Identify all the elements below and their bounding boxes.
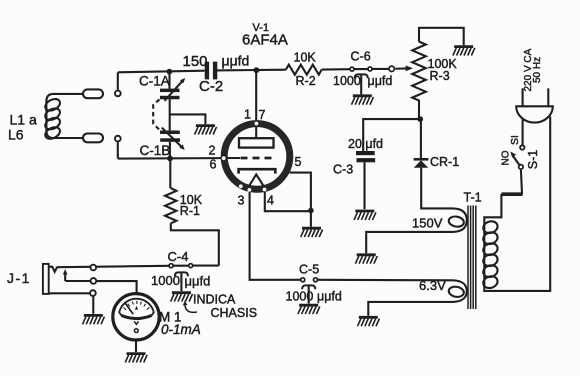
wire top bus left <box>118 71 205 73</box>
wire socket bottom riser <box>117 142 119 158</box>
terminal tip <box>90 265 96 271</box>
capacitor C4 feedthrough <box>169 264 219 292</box>
svg-text:1000: 1000 <box>333 74 361 88</box>
wire wiper arrow <box>395 67 406 69</box>
node junction tube plate <box>254 67 260 73</box>
svg-text:0-1mA: 0-1mA <box>161 322 201 337</box>
svg-text:R-1: R-1 <box>180 204 200 218</box>
svg-text:6AF4A: 6AF4A <box>242 32 288 49</box>
chassis pointer arrow <box>185 304 197 313</box>
wire pin4 <box>265 192 309 211</box>
capacitor C5 feedthrough <box>301 278 452 304</box>
svg-text:S-1: S-1 <box>526 150 540 170</box>
wire C-1B to grid bus <box>169 142 171 159</box>
svg-text:20 μfd: 20 μfd <box>348 137 383 151</box>
ground jack <box>83 315 105 324</box>
svg-text:R-2: R-2 <box>296 74 316 88</box>
terminal sleeve <box>90 290 96 296</box>
ground 150V <box>355 255 377 264</box>
transformer T1 150V winding <box>448 208 467 232</box>
svg-text:μμfd: μμfd <box>368 74 393 88</box>
svg-text:1: 1 <box>244 108 251 122</box>
wire C-1 gang dashed link <box>153 99 160 130</box>
svg-text:10K: 10K <box>294 51 317 65</box>
wire jack middle line <box>65 280 91 282</box>
wire top-left riser <box>117 72 119 89</box>
node junction B+ <box>417 116 423 122</box>
wire pin3 heater <box>250 192 301 280</box>
svg-text:7: 7 <box>259 108 266 122</box>
wire 150V return <box>366 232 452 253</box>
svg-text:3: 3 <box>238 194 245 208</box>
ground C5 <box>298 305 320 314</box>
capacitor C3 <box>356 151 375 209</box>
svg-text:150V: 150V <box>412 216 443 231</box>
node junction grid/R-1 <box>167 156 173 162</box>
ground cathode circuit <box>301 228 323 237</box>
svg-text:CHASIS: CHASIS <box>211 306 258 320</box>
svg-text:R-3: R-3 <box>430 69 450 83</box>
transformer T1 6.3V winding <box>448 280 467 302</box>
resistor R2 <box>286 65 322 75</box>
svg-text:C-1B: C-1B <box>140 143 171 158</box>
svg-text:1000: 1000 <box>151 273 180 288</box>
svg-text:C-6: C-6 <box>351 50 371 64</box>
capacitor C-1A <box>160 72 185 101</box>
svg-text:6.3V: 6.3V <box>419 278 446 293</box>
svg-text:CR-1: CR-1 <box>430 155 459 169</box>
svg-text:5: 5 <box>295 155 302 169</box>
svg-text:μμfd: μμfd <box>222 53 250 69</box>
svg-text:L1 a: L1 a <box>10 112 37 128</box>
wire rotor tap <box>170 99 206 130</box>
wire middle to meter <box>96 281 137 293</box>
svg-text:4: 4 <box>267 194 274 208</box>
svg-text:C-4: C-4 <box>168 249 189 264</box>
wire 6.3V return <box>368 302 452 316</box>
ground meter <box>125 354 147 363</box>
svg-text:C-3: C-3 <box>333 163 353 177</box>
terminal middle <box>91 278 97 284</box>
wire R2 to C6 <box>322 68 350 71</box>
socket terminal top <box>115 91 121 97</box>
wire C2 to tube top <box>216 69 286 72</box>
ground R3 top <box>453 47 475 56</box>
svg-text:50 Hz: 50 Hz <box>532 57 543 83</box>
svg-text:L6: L6 <box>8 127 24 143</box>
ground C4 <box>171 293 193 302</box>
ground C6 <box>352 96 374 105</box>
ground rotor <box>195 126 217 135</box>
plug 220V <box>516 88 553 144</box>
switch S1 <box>501 145 524 193</box>
transformer T1 core <box>468 206 476 310</box>
capacitor C-1B <box>160 128 185 150</box>
svg-text:150: 150 <box>183 53 208 70</box>
svg-text:μμfd: μμfd <box>185 273 211 288</box>
ground 6.3V <box>358 317 380 326</box>
wire junction to ground <box>310 211 312 227</box>
transformer T1 primary <box>482 117 551 291</box>
svg-text:1000: 1000 <box>286 290 314 304</box>
svg-text:T-1: T-1 <box>464 191 482 205</box>
svg-text:J-1: J-1 <box>7 270 31 286</box>
svg-text:INDICA: INDICA <box>193 293 236 307</box>
wire jack sleeve line <box>49 292 91 294</box>
svg-text:C-5: C-5 <box>299 263 319 277</box>
svg-text:C-1A: C-1A <box>139 74 170 89</box>
wire sleeve to ground <box>92 296 94 314</box>
jack J1 <box>43 264 68 294</box>
wire B+ to C3 <box>363 119 420 151</box>
svg-text:SI: SI <box>509 135 521 145</box>
node junction at C-1A top <box>167 69 173 75</box>
capacitor C2 <box>205 62 218 80</box>
node junction pin4/5 <box>308 208 314 214</box>
wire meter to ground <box>135 340 137 352</box>
svg-text:NO: NO <box>501 150 512 165</box>
wire plate lead <box>255 70 257 138</box>
ground C3 <box>354 211 376 220</box>
socket terminal bottom <box>115 136 121 142</box>
svg-text:2: 2 <box>209 144 216 158</box>
wire jack tip line <box>57 266 169 267</box>
wire pin5 <box>290 173 311 211</box>
capacitor C6 feedthrough <box>350 66 394 94</box>
svg-text:μμfd: μμfd <box>317 290 342 304</box>
meter M1 <box>113 294 159 340</box>
resistor R3 potentiometer <box>412 28 464 119</box>
wire grid bus <box>118 157 240 160</box>
coil L1a/L6 <box>43 89 103 142</box>
resistor R1 <box>165 158 219 265</box>
diode CR1 <box>414 119 452 208</box>
svg-text:6: 6 <box>210 158 217 172</box>
svg-text:C-2: C-2 <box>199 78 223 95</box>
tube V1 6AF4A <box>222 122 290 192</box>
